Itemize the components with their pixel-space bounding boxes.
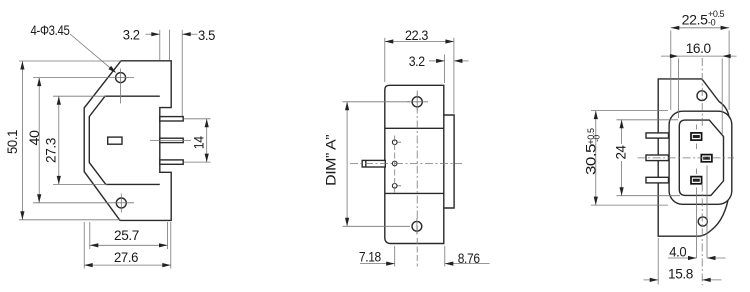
extension line hole bottom to dimA [343, 225, 411, 227]
dimension 4.0 tail right [707, 257, 726, 259]
dimension line 27.3 [58, 96, 60, 184]
svg-text:4.0: 4.0 [669, 243, 687, 259]
dimension line DIM A [346, 102, 348, 227]
extension line 22.3 left [384, 38, 386, 82]
right view top mounting hole [697, 91, 707, 101]
middle view solder pin [362, 160, 385, 167]
dimension 3.2 tail left [146, 33, 160, 35]
tab2 centerline [638, 157, 734, 159]
middle pin centerline [350, 163, 462, 165]
svg-text:27.3: 27.3 [42, 137, 58, 163]
middle view side strip [444, 115, 454, 208]
dimension line 24 lower [621, 161, 623, 196]
extension line pin1 center [184, 118, 211, 120]
extension line 15.8 left [657, 238, 659, 285]
middle view pin tick [365, 160, 367, 167]
IEC pin middle [701, 155, 712, 162]
middle view top hole [412, 97, 422, 107]
pin column centerline stubs [696, 125, 698, 259]
dimension line 50.1 [21, 61, 23, 220]
left view bottom mounting hole [116, 198, 126, 208]
left view pin 3 [160, 160, 183, 164]
extension line 16.0 right [721, 59, 723, 136]
leader line 4-phi3.45 [70, 34, 115, 72]
middle pin centerline vertical [706, 166, 708, 259]
pin dot column centerline [394, 136, 396, 193]
extension line x169.5 top [169, 30, 171, 60]
middle view pin dot 1 [392, 140, 397, 145]
svg-text:14: 14 [190, 136, 206, 150]
arrowheads middle view [345, 102, 349, 111]
left view pin 2 [160, 138, 183, 142]
arrowheads right view [671, 26, 680, 30]
dimension line 24 upper [621, 120, 623, 144]
dimension line 22.3 [385, 41, 454, 43]
arrowheads left view [20, 61, 24, 70]
extension line hole top center [33, 77, 134, 79]
dimension 7.18 tail [360, 263, 395, 265]
left view top mounting hole [116, 73, 126, 83]
svg-text:3.2: 3.2 [123, 27, 141, 43]
extension line bottom x89.8 [89, 222, 91, 249]
left view inner boss outline [89, 96, 160, 184]
svg-text:3.5: 3.5 [198, 27, 216, 43]
extension line 30.5 top [591, 110, 668, 112]
svg-text:24: 24 [613, 145, 629, 160]
extension line 22.5 right [728, 31, 730, 111]
dimension 8.76 tail [445, 263, 490, 265]
middle view pin dot 2 [392, 161, 397, 166]
svg-text:-0: -0 [708, 18, 716, 28]
dimension 15.8 tail right [702, 279, 721, 281]
svg-text:4-Φ3.45: 4-Φ3.45 [31, 22, 70, 38]
solder tab 3 [646, 177, 669, 183]
extension line 7.18 left [394, 246, 396, 267]
svg-text:16.0: 16.0 [686, 40, 712, 56]
svg-text:30.5: 30.5 [582, 143, 598, 175]
extension line 30.5 bottom [591, 204, 668, 206]
svg-text:25.7: 25.7 [114, 227, 140, 243]
pin dot ticks [398, 142, 402, 186]
hole centerline right view lower [701, 184, 703, 286]
right view bottom mounting hole [698, 217, 707, 226]
extension line inner top [53, 95, 106, 97]
left view pin 1 [160, 117, 183, 121]
svg-text:-0: -0 [592, 134, 602, 141]
extension line inner bottom [53, 183, 107, 185]
dimension 4.0 tail left [668, 257, 697, 259]
centerline ext bottom [416, 238, 418, 267]
extension line 24 top [617, 119, 679, 121]
hole crosshair bottom [120, 194, 122, 213]
pin slot top [693, 135, 700, 138]
svg-text:15.8: 15.8 [668, 266, 694, 282]
IEC pin top [691, 133, 702, 140]
dimension line 27.6 [84, 264, 171, 266]
extension line 22.5 left [670, 31, 672, 111]
svg-text:40: 40 [26, 130, 42, 146]
dimension 15.8 tail left [644, 279, 659, 281]
middle view body outline [385, 85, 444, 243]
dimension 3.5 tail right [182, 33, 197, 35]
middle view pin dot 3 [392, 184, 397, 189]
hole crosshair horizontal top [407, 101, 428, 103]
svg-text:7.18: 7.18 [359, 248, 382, 264]
dimension 3.2 tail left middle [429, 60, 445, 62]
extension line hole top to dimA [343, 101, 411, 103]
extension line 16.0 left [677, 59, 679, 119]
svg-text:22.3: 22.3 [405, 27, 429, 43]
left view slot [108, 137, 122, 144]
pin slot bottom [693, 179, 700, 182]
hole centerline vertical middle view [416, 91, 418, 237]
solder tab 1 [646, 133, 669, 138]
left view body outline [84, 61, 171, 221]
dimension line 22.5 [671, 27, 729, 29]
dimension line 30.5 [595, 111, 597, 206]
middle view separation line lower [385, 192, 444, 194]
extension line hole bottom center [33, 202, 134, 204]
svg-text:27.6: 27.6 [114, 249, 139, 265]
D-shape inner opening [679, 120, 723, 195]
D-body outer shell [669, 111, 732, 204]
hole crosshair top [120, 69, 122, 104]
extension line bottom edge left [19, 219, 121, 221]
svg-text:DIM” A”: DIM” A” [323, 134, 339, 186]
dimension 3.2 tail right middle [454, 60, 469, 62]
extension line 22.3 right [453, 38, 455, 114]
hole centerline right view upper [701, 58, 703, 128]
extension line x160 top [159, 30, 161, 60]
dimension line 40 [38, 78, 40, 203]
dimension line 14 [206, 119, 208, 162]
extension line 24 bottom [617, 195, 681, 197]
svg-text:22.5: 22.5 [682, 12, 709, 28]
dimension line 16.0 [661, 55, 737, 57]
extension line 3.2 left [444, 55, 446, 84]
svg-text:50.1: 50.1 [4, 129, 20, 154]
bottom hole crosshair vertical [416, 218, 418, 235]
extension line x182.2 top [181, 30, 183, 116]
middle view bottom hole [412, 221, 422, 231]
dimension line 25.7 [90, 244, 168, 246]
solder tab 2 [646, 155, 669, 161]
pin slot middle [703, 157, 710, 160]
extension line 8.76 right [444, 246, 446, 267]
extension line bottom x167.5 [167, 222, 169, 249]
svg-text:8.76: 8.76 [458, 250, 481, 266]
hole crosshair vertical top [416, 94, 418, 111]
pin2 centerline [150, 139, 191, 141]
IEC pin bottom [691, 177, 702, 184]
right view flange outline [658, 79, 729, 236]
extension line top edge left [19, 60, 121, 62]
extension line bottom x170.8 [170, 222, 172, 269]
svg-text:3.2: 3.2 [409, 53, 426, 69]
extension line pin3 center [184, 161, 211, 163]
middle view separation line upper [385, 127, 444, 129]
extension line bottom x84 [83, 222, 85, 269]
